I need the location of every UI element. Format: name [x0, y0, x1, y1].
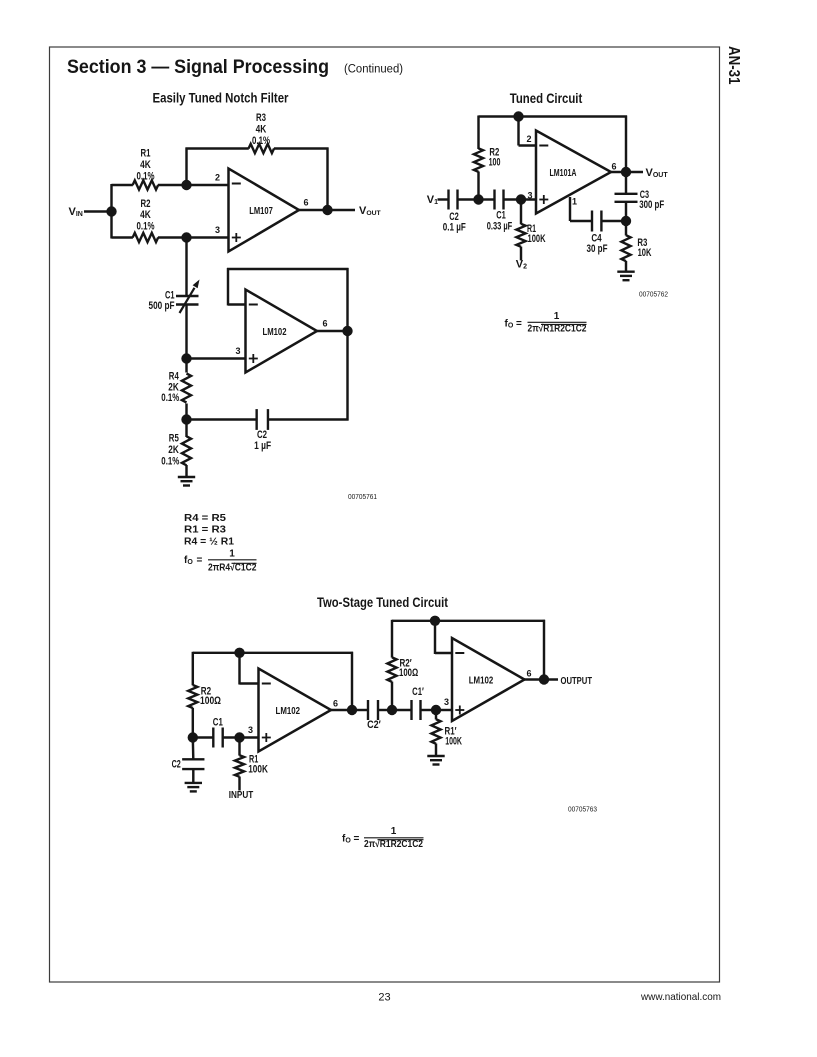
wire — [517, 117, 519, 146]
svg-text:6: 6 — [611, 162, 616, 172]
resistor R2 s1 — [188, 685, 197, 708]
pin 3 label U2 — [235, 346, 240, 356]
wire — [185, 304, 187, 359]
resistor R1' s2 — [431, 719, 440, 744]
wire — [421, 709, 437, 711]
svg-text:500 pF: 500 pF — [149, 300, 175, 312]
capacitor C2 — [257, 409, 268, 430]
wire — [525, 678, 559, 680]
svg-text:LM102: LM102 — [469, 674, 494, 686]
node plus junction c2 — [516, 194, 526, 204]
wire — [436, 709, 452, 711]
wire — [504, 198, 537, 200]
svg-text:1: 1 — [391, 826, 397, 837]
wire — [185, 238, 187, 297]
wire — [268, 418, 349, 420]
svg-text:LM102: LM102 — [276, 705, 301, 717]
svg-text:C1′: C1′ — [412, 686, 424, 698]
wire — [520, 200, 522, 225]
V1 source label — [427, 194, 438, 206]
svg-text:100K: 100K — [248, 764, 268, 776]
node input s1 — [188, 732, 198, 742]
svg-text:C2: C2 — [172, 759, 181, 771]
section heading — [67, 57, 403, 78]
ground — [178, 477, 195, 486]
wire — [240, 736, 259, 738]
resistor R3 — [249, 144, 274, 153]
svg-text:0.33 µF: 0.33 µF — [487, 220, 513, 232]
node plus s1 — [234, 732, 244, 742]
svg-text:Two-Stage Tuned Circuit: Two-Stage Tuned Circuit — [317, 595, 448, 610]
wire — [479, 115, 628, 117]
equation f0 notch — [184, 549, 257, 574]
C2 value label — [254, 429, 271, 452]
R5 value label — [161, 433, 179, 468]
node D — [181, 414, 191, 424]
svg-text:6: 6 — [526, 669, 531, 679]
svg-text:0.1%: 0.1% — [252, 135, 270, 147]
wire — [192, 769, 194, 783]
svg-text:R3: R3 — [256, 112, 266, 124]
node C3 junction — [621, 216, 631, 226]
R3 value label — [252, 112, 270, 147]
svg-text:R1 = R3: R1 = R3 — [184, 525, 226, 536]
node V1 junction — [473, 194, 483, 204]
resistor R1 — [133, 180, 159, 189]
R1 value label — [137, 147, 155, 182]
wire — [299, 209, 355, 211]
svg-text:R5: R5 — [169, 433, 179, 445]
wire — [112, 236, 133, 238]
V_OUT label c2 — [646, 167, 669, 179]
wire — [192, 652, 194, 686]
svg-text:3: 3 — [527, 190, 532, 200]
wire — [520, 247, 522, 261]
wire — [238, 777, 240, 791]
wire — [192, 708, 194, 738]
node top s1 — [234, 648, 244, 658]
svg-text:C1: C1 — [213, 716, 223, 728]
wire — [625, 116, 627, 195]
wire — [570, 220, 592, 222]
node C — [181, 353, 191, 363]
wire — [434, 621, 436, 654]
wire — [331, 709, 352, 711]
svg-text:3: 3 — [235, 346, 240, 356]
svg-text:3: 3 — [444, 697, 449, 707]
C2 value label c2 — [443, 211, 466, 234]
wire — [458, 198, 479, 200]
equation f0 tuned — [505, 311, 587, 335]
node output s1 — [347, 705, 357, 715]
C2' value label — [367, 719, 381, 731]
svg-text:10K: 10K — [638, 247, 652, 259]
C4 value label — [587, 233, 608, 256]
svg-text:100Ω: 100Ω — [200, 695, 221, 707]
wire — [84, 210, 112, 212]
svg-text:C2: C2 — [257, 429, 267, 441]
wire — [543, 620, 545, 680]
wire — [238, 653, 240, 685]
resistor R5 — [182, 436, 191, 465]
page border frame — [50, 47, 720, 982]
footer url — [640, 991, 721, 1003]
wire — [185, 359, 187, 373]
svg-text:R4 = R5: R4 = R5 — [184, 513, 226, 524]
svg-text:2K: 2K — [168, 444, 179, 456]
node plus s2 — [431, 705, 441, 715]
figure code 00705761 — [348, 492, 377, 501]
R1 value label c2 — [527, 223, 546, 245]
wire — [435, 652, 452, 654]
svg-text:=: = — [197, 555, 203, 566]
svg-text:=: = — [354, 834, 360, 845]
svg-text:0.1%: 0.1% — [137, 171, 155, 183]
svg-text:30 pF: 30 pF — [587, 243, 608, 255]
svg-text:6: 6 — [333, 699, 338, 709]
svg-text:VOUT: VOUT — [646, 167, 669, 179]
svg-text:100Ω: 100Ω — [399, 667, 418, 679]
wire — [326, 148, 328, 211]
wire — [391, 682, 393, 710]
wire — [193, 736, 214, 738]
page number — [378, 992, 390, 1004]
pin 3 label U3 — [527, 190, 532, 200]
wire — [158, 184, 187, 186]
wire — [187, 236, 229, 238]
svg-text:1: 1 — [229, 549, 235, 560]
resistor R4 — [182, 374, 191, 403]
wire — [193, 652, 353, 654]
svg-text:R4 = ½ R1: R4 = ½ R1 — [184, 536, 234, 547]
pin 6 label — [303, 198, 308, 208]
wire — [187, 418, 257, 420]
wire — [438, 198, 449, 200]
node VIN junction — [106, 206, 116, 216]
svg-text:LM102: LM102 — [263, 326, 287, 338]
figure code 00705762 — [639, 290, 668, 299]
pin 6 label U2 — [322, 319, 327, 329]
OUTPUT label — [561, 675, 593, 687]
svg-text:Tuned Circuit: Tuned Circuit — [510, 91, 583, 106]
equation f0 two-stage — [342, 826, 424, 850]
C2 value label s1 — [172, 759, 181, 771]
svg-text:VOUT: VOUT — [359, 205, 382, 217]
pin 3 label — [215, 225, 220, 235]
circuit title: Tuned Circuit — [510, 91, 583, 106]
svg-text:Section 3 — Signal Processing: Section 3 — Signal Processing — [67, 57, 329, 78]
wire — [435, 744, 437, 757]
op-amp U4 LM102 (stage 1) — [259, 669, 332, 752]
node top c2 — [513, 111, 523, 121]
wire — [317, 330, 348, 332]
wire — [601, 220, 626, 222]
R4 value label — [161, 371, 179, 405]
svg-text:R1: R1 — [141, 147, 151, 159]
wire — [185, 148, 187, 186]
wire — [351, 652, 353, 710]
pin 6 label U4 — [333, 699, 338, 709]
node top s2 — [430, 616, 440, 626]
R3 value label c2 — [637, 237, 651, 259]
svg-text:VIN: VIN — [69, 206, 83, 218]
capacitor C1 (variable) — [176, 280, 200, 314]
svg-text:C2′: C2′ — [367, 719, 381, 731]
wire — [435, 710, 437, 720]
svg-text:00705763: 00705763 — [568, 805, 597, 814]
AN-31 side label — [725, 46, 742, 85]
wire — [185, 404, 187, 420]
figure code 00705763 — [568, 805, 597, 814]
node output U2 — [342, 326, 352, 336]
R2 value label — [137, 198, 155, 233]
wire — [625, 202, 627, 221]
op-amp U3 LM101A — [536, 131, 611, 214]
wire — [519, 144, 537, 146]
svg-text:100K: 100K — [445, 736, 462, 748]
R1 value label s1 — [248, 754, 268, 776]
wire — [274, 147, 329, 149]
wire — [112, 184, 133, 186]
wire — [158, 236, 187, 238]
node A — [181, 180, 191, 190]
op-amp U2 LM102 — [246, 290, 318, 373]
pin 3 label U4 — [248, 725, 253, 735]
svg-text:1: 1 — [554, 311, 560, 322]
svg-text:100: 100 — [489, 157, 501, 169]
svg-text:1: 1 — [572, 197, 577, 207]
op-amp U1 LM107 — [229, 169, 300, 252]
resistor R1 s1 — [235, 755, 244, 777]
capacitor C2 s1 (to ground) — [182, 759, 204, 769]
wire — [625, 261, 627, 272]
svg-text:V1: V1 — [427, 194, 438, 206]
pin 6 label U5 — [526, 669, 531, 679]
node output s2 — [539, 674, 549, 684]
ground s1 — [185, 783, 202, 792]
svg-text:2: 2 — [526, 134, 531, 144]
svg-text:LM101A: LM101A — [550, 167, 577, 179]
wire — [392, 709, 412, 711]
svg-text:2π√R1R2C1C2: 2π√R1R2C1C2 — [364, 839, 423, 850]
svg-text:fO: fO — [184, 555, 193, 566]
equation R1 = R3 — [184, 525, 226, 536]
wire — [611, 171, 643, 173]
R2 value label s1 — [200, 686, 221, 707]
wire — [479, 198, 495, 200]
svg-text:00705761: 00705761 — [348, 492, 377, 501]
svg-text:300 pF: 300 pF — [639, 199, 664, 211]
circuit title: Two-Stage Tuned Circuit — [317, 595, 448, 610]
op-amp U5 LM102 (stage 2) — [452, 638, 525, 721]
svg-text:3: 3 — [215, 225, 220, 235]
svg-text:00705762: 00705762 — [639, 290, 668, 299]
svg-text:6: 6 — [303, 198, 308, 208]
ground s2 — [427, 756, 444, 765]
svg-text:www.national.com: www.national.com — [640, 991, 721, 1003]
resistor R1 tuned — [516, 224, 525, 247]
wire — [192, 738, 195, 760]
wire — [110, 184, 112, 239]
pin 6 label U3 — [611, 162, 616, 172]
wire — [187, 357, 246, 359]
C1 value label — [149, 290, 175, 312]
pin 2 label — [215, 173, 220, 183]
svg-text:INPUT: INPUT — [229, 790, 254, 801]
ground c2 — [617, 272, 634, 281]
wire — [391, 620, 393, 658]
wire — [346, 268, 348, 421]
svg-text:R4: R4 — [169, 371, 180, 383]
R2 value label c2 — [489, 146, 501, 168]
wire — [392, 620, 545, 622]
capacitor C1 s1 — [213, 728, 222, 748]
R2' value label — [399, 657, 418, 679]
svg-text:2πR4√C1C2: 2πR4√C1C2 — [208, 563, 257, 574]
svg-text:0.1%: 0.1% — [161, 392, 179, 404]
resistor R3 tuned — [621, 235, 630, 261]
svg-text:6: 6 — [322, 319, 327, 329]
resistor R2 tuned — [474, 148, 483, 172]
equation R4 = half R1 — [184, 536, 234, 547]
pin 3 label U5 — [444, 697, 449, 707]
svg-text:1 µF: 1 µF — [254, 440, 271, 452]
capacitor C4 — [592, 211, 601, 232]
C1 value label c2 — [487, 209, 513, 232]
wire — [185, 420, 187, 438]
capacitor C2 tuned — [449, 190, 458, 210]
svg-text:2: 2 — [215, 173, 220, 183]
svg-text:OUTPUT: OUTPUT — [561, 675, 593, 687]
wire — [187, 184, 229, 186]
svg-text:4K: 4K — [140, 159, 151, 171]
wire — [477, 172, 479, 200]
svg-text:AN-31: AN-31 — [725, 46, 742, 85]
wire — [227, 268, 349, 270]
node output U1 — [322, 205, 332, 215]
R1' value label — [445, 726, 463, 748]
svg-text:2π√R1R2C1C2: 2π√R1R2C1C2 — [528, 324, 587, 335]
node output U3 — [621, 167, 631, 177]
svg-text:Easily Tuned Notch Filter: Easily Tuned Notch Filter — [153, 91, 290, 106]
capacitor C1 tuned — [495, 190, 504, 210]
svg-text:4K: 4K — [140, 209, 151, 221]
circuit title: Easily Tuned Notch Filter — [153, 91, 290, 106]
svg-text:0.1 µF: 0.1 µF — [443, 222, 466, 234]
pin 1 label U3 — [572, 197, 577, 207]
svg-text:4K: 4K — [256, 124, 267, 136]
wire — [352, 709, 368, 711]
svg-text:(Continued): (Continued) — [344, 64, 403, 76]
resistor R2 — [133, 233, 159, 242]
wire — [228, 303, 246, 305]
svg-text:fO: fO — [342, 834, 351, 845]
equation R4 = R5 — [184, 513, 226, 524]
wire — [185, 465, 187, 477]
INPUT label — [229, 790, 254, 801]
svg-text:fO: fO — [505, 319, 514, 330]
svg-text:0.1%: 0.1% — [137, 221, 155, 233]
capacitor C1' — [412, 700, 421, 720]
pin 2 label U3 — [526, 134, 531, 144]
wire — [569, 197, 571, 221]
wire — [186, 147, 249, 149]
node interstage — [387, 705, 397, 715]
svg-text:23: 23 — [378, 992, 390, 1004]
V_OUT label — [359, 205, 382, 217]
svg-text:0.1%: 0.1% — [161, 456, 179, 468]
wire — [238, 738, 240, 756]
svg-text:V2: V2 — [516, 259, 527, 271]
C1' value label — [412, 686, 424, 698]
capacitor C2' — [368, 700, 378, 720]
C1 value label s1 — [213, 716, 223, 728]
V_IN source label — [69, 206, 83, 218]
resistor R2' s2 — [387, 657, 396, 682]
wire — [240, 682, 259, 684]
capacitor C3 — [615, 194, 638, 202]
wire — [227, 268, 229, 306]
C3 value label — [639, 189, 664, 211]
wire — [223, 736, 240, 738]
wire — [378, 709, 392, 711]
V2 source label — [516, 259, 527, 271]
node B — [181, 232, 191, 242]
wire — [477, 116, 479, 150]
svg-text:=: = — [516, 319, 522, 330]
wire — [625, 221, 627, 236]
svg-text:3: 3 — [248, 725, 253, 735]
svg-text:100K: 100K — [528, 233, 546, 245]
svg-text:LM107: LM107 — [249, 205, 273, 217]
